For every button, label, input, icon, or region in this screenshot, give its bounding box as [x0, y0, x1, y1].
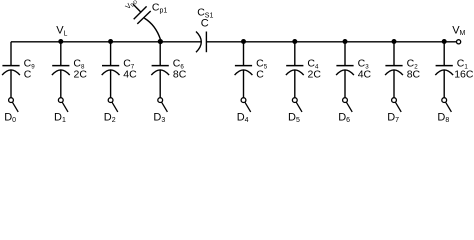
- wire branch lead from capacitor C8 to switch D1: [60, 70, 62, 98]
- switch D3 (open, pivot circle with lever): [158, 98, 168, 112]
- node junction of C3 branch on rail: [343, 39, 348, 44]
- svg-text:D1: D1: [54, 111, 66, 124]
- svg-text:8C: 8C: [173, 69, 187, 81]
- wire branch lead from rail to capacitor C9: [10, 42, 12, 66]
- wire branch lead from capacitor C1 to switch D8: [443, 70, 445, 98]
- capacitor C2: [385, 66, 403, 76]
- capacitor C7: [102, 66, 120, 76]
- node junction of C4 branch on rail: [292, 39, 297, 44]
- wire branch lead from capacitor C7 to switch D2: [110, 70, 112, 98]
- wire branch lead from capacitor C3 to switch D6: [344, 70, 346, 98]
- switch D0 (open, pivot circle with lever): [9, 98, 19, 112]
- node junction of C6 branch on rail: [158, 39, 163, 44]
- svg-text:VDD: VDD: [123, 0, 139, 12]
- capacitor CS1 (series coupling cap between the two arrays): [196, 32, 206, 53]
- svg-text:C: C: [201, 18, 209, 30]
- capacitor C8: [52, 66, 70, 76]
- switch D8 (open, pivot circle with lever): [442, 98, 452, 112]
- wire branch lead from capacitor C4 to switch D5: [294, 70, 296, 98]
- switch D4 (open, pivot circle with lever): [241, 98, 251, 112]
- svg-text:2C: 2C: [308, 69, 322, 81]
- svg-text:VM: VM: [452, 24, 465, 37]
- svg-text:D4: D4: [237, 111, 249, 124]
- svg-text:8C: 8C: [407, 69, 421, 81]
- svg-text:2C: 2C: [74, 69, 88, 81]
- node junction of C2 branch on rail: [392, 39, 397, 44]
- wire branch lead from rail to capacitor C8: [60, 42, 62, 66]
- node junction of C8 branch on rail: [58, 39, 63, 44]
- switch D2 (open, pivot circle with lever): [108, 98, 118, 112]
- capacitor C4: [286, 66, 304, 76]
- wire top rail of right array (VM node): [206, 41, 456, 43]
- svg-text:D7: D7: [387, 111, 399, 124]
- wire top rail of left array (VL node): [11, 41, 201, 43]
- node junction of Cp1 on rail (same node as C6 branch): [158, 39, 163, 44]
- power VDD rotated label (supply side of parasitic cap Cp1): [123, 0, 139, 12]
- wire branch lead from rail to capacitor C1: [443, 42, 445, 66]
- switch D6 (open, pivot circle with lever): [343, 98, 353, 112]
- wire branch lead from capacitor C5 to switch D4: [243, 70, 245, 98]
- node junction of C1 branch on rail: [442, 39, 447, 44]
- svg-text:C: C: [24, 69, 32, 81]
- svg-text:D5: D5: [288, 111, 300, 124]
- wire branch lead from rail to capacitor C2: [393, 42, 395, 66]
- switch D5 (open, pivot circle with lever): [292, 98, 302, 112]
- svg-text:4C: 4C: [123, 69, 137, 81]
- svg-text:D8: D8: [437, 111, 449, 124]
- wire branch lead from rail to capacitor C3: [344, 42, 346, 66]
- svg-text:16C: 16C: [454, 69, 474, 81]
- wire branch lead from rail to capacitor C4: [294, 42, 296, 66]
- switch D1 (open, pivot circle with lever): [58, 98, 68, 112]
- svg-text:Cp1: Cp1: [152, 2, 167, 15]
- svg-text:D3: D3: [153, 111, 165, 124]
- capacitor C1: [435, 66, 453, 76]
- wire branch lead from rail to capacitor C5: [243, 42, 245, 66]
- wire branch lead from capacitor C9 to switch D0: [10, 70, 12, 98]
- svg-text:C: C: [256, 69, 264, 81]
- svg-text:D6: D6: [338, 111, 350, 124]
- capacitor C3: [336, 66, 354, 76]
- capacitor Cp1 (parasitic, drawn diagonally) with leads: [133, 4, 160, 39]
- capacitor C9: [2, 66, 20, 76]
- switch D7 (open, pivot circle with lever): [392, 98, 402, 112]
- svg-text:D2: D2: [104, 111, 116, 124]
- capacitor C6: [151, 66, 169, 76]
- svg-text:4C: 4C: [358, 69, 372, 81]
- wire branch lead from capacitor C2 to switch D7: [393, 70, 395, 98]
- wire branch lead from capacitor C6 to switch D3: [159, 70, 161, 98]
- capacitor C5: [235, 66, 253, 76]
- node junction of C7 branch on rail: [108, 39, 113, 44]
- wire branch lead from rail to capacitor C7: [110, 42, 112, 66]
- svg-text:VL: VL: [56, 25, 67, 38]
- terminal VM (open circle output at right end of rail): [457, 40, 461, 44]
- svg-text:D0: D0: [4, 111, 16, 124]
- node junction of C5 branch on rail: [241, 39, 246, 44]
- wire branch lead from rail to capacitor C6: [159, 42, 161, 66]
